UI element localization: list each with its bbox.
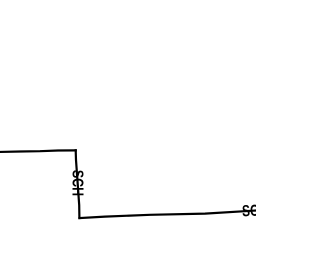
svg-text:SCH: SCH [68,170,86,196]
wire: upper-left horizontal segment of net SCH [0,150,76,152]
svg-text:SCH: SCH [242,201,256,220]
wire: lower horizontal segment of net SCH [79,210,258,218]
wire: vertical segment of net SCH [76,150,80,218]
